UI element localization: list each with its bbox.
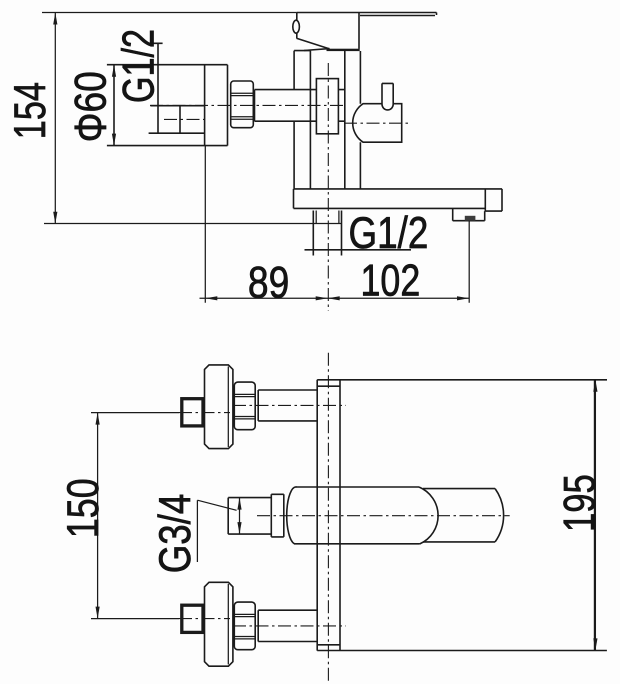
svg-text:G1/2: G1/2 [349,209,429,258]
svg-text:G1/2: G1/2 [114,29,163,103]
svg-text:154: 154 [6,82,55,139]
svg-text:102: 102 [361,257,421,306]
svg-text:Φ60: Φ60 [66,71,115,142]
svg-text:150: 150 [59,478,108,538]
svg-text:G3/4: G3/4 [151,494,200,574]
svg-text:89: 89 [248,258,289,307]
svg-text:195: 195 [556,474,605,532]
